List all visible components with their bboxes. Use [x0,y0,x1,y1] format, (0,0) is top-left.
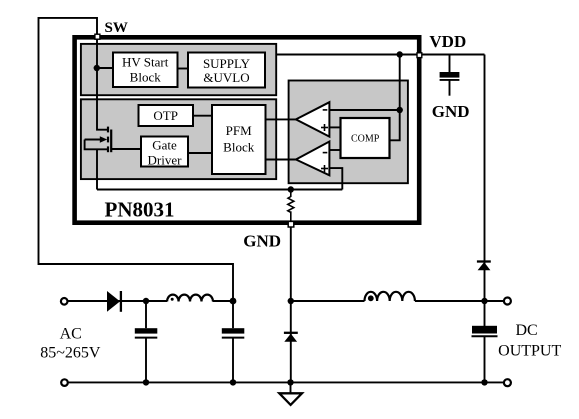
wire SW loop (external) [39,18,234,301]
wire PFM to comparator1 output [266,118,296,120]
inductor L2 with polarity dot [365,292,415,301]
pin SW terminal [95,34,100,39]
IC U1 PN8031 body [75,37,420,222]
inductor L1 with polarity dot [167,295,213,302]
HV/supply gray block [81,44,276,95]
HV Start Block box [113,53,178,88]
wire SW to HV Start Block [97,67,113,69]
capacitor C1 filter [135,328,158,333]
wire comparator2 non-inverting to feedback rail [329,168,342,189]
SUPPLY & UVLO box [188,53,265,88]
comparator gray block [289,81,408,184]
comparator A1 plus [321,127,328,129]
wire SW internal vertical to MOSFET drain [97,40,108,130]
wire OTP to PFM [193,115,212,117]
wire AC rail left [64,300,167,302]
svg-text:Gate: Gate [152,137,177,152]
svg-text:OUTPUT: OUTPUT [498,343,561,360]
wire bottom rail [65,381,504,383]
transistor Q1 body arrow [85,139,102,141]
svg-text:85~265V: 85~265V [40,344,101,361]
comparator A1 triangle [296,102,330,136]
capacitor C3 output [472,326,497,334]
transistor Q1 body-source loop [85,140,108,150]
wire HV Start Block to SUPPLY&UVLO [178,68,189,70]
wire VDD cap top lead [449,55,451,73]
wire filter cap C2 leads [232,301,234,328]
wire inductor1 to node [213,300,233,302]
wire VDD drop to comparator [399,55,401,111]
svg-text:SW: SW [105,20,128,36]
wire output vertical VDD to bottom rail [484,55,486,327]
svg-text:AC: AC [60,326,82,343]
wire filter cap C1 leads [145,301,147,328]
wire comparator2 inverting to COMP [329,149,340,151]
svg-text:&UVLO: &UVLO [203,70,249,85]
svg-text:Driver: Driver [148,152,183,167]
svg-text:GND: GND [432,102,470,121]
svg-text:HV Start: HV Start [122,55,169,70]
wire feedback rail [97,189,342,191]
capacitor C2 filter [222,328,245,333]
svg-text:PN8031: PN8031 [105,198,175,222]
Gate Driver box [141,137,188,167]
comparator A2 minus [323,152,328,154]
comparator A2 plus [321,168,328,170]
diode D3 output rectifier [477,260,491,262]
node junction dots [94,65,100,71]
AC input terminal + [61,298,68,305]
ground symbol [279,393,302,405]
svg-text:GND: GND [243,232,281,251]
wire MOSFET source down [96,149,98,189]
OTP box [139,105,194,126]
PFM Block box [212,105,266,174]
wire comparator1 inverting input [329,109,399,111]
wire COMP right link [390,110,400,140]
comparator A2 triangle [296,142,330,176]
wire Gate Driver to PFM [188,152,212,154]
transistor Q1 gate plate [110,130,112,153]
diode D2 freewheel [284,332,298,334]
wire gate lead to Gate Driver [111,148,141,150]
wire VDD rail from supply block to output diode [276,54,485,56]
svg-text:VDD: VDD [429,32,466,51]
svg-text:COMP: COMP [351,134,380,145]
wire rail inductor2 to DC+ [415,300,504,302]
svg-text:PFM: PFM [226,123,252,138]
resistor R1 current sense [288,197,294,213]
AC input terminal - [61,379,68,386]
DC output terminal + [504,298,511,305]
wire ground stub [290,382,292,392]
wire comparator1 non-inverting to COMP [329,126,340,128]
wire sense resistor bottom stub [290,211,292,221]
diode D1 input rectifier [107,291,120,312]
pin VDD terminal [417,53,422,58]
capacitor C4 VDD [440,72,460,78]
wire GND node to inductor2 [290,300,364,302]
wire GND pin down to bottom rail [290,228,292,383]
svg-text:DC: DC [515,322,537,339]
svg-text:OTP: OTP [153,108,178,123]
svg-text:Block: Block [130,70,162,85]
wire PFM to comparator2 output [266,159,296,161]
svg-text:SUPPLY: SUPPLY [203,56,251,71]
COMP box [341,118,390,158]
control gray block [81,99,276,179]
pin GND terminal [288,221,294,227]
wire VDD cap bottom lead [449,80,451,96]
DC output terminal - [504,379,511,386]
wire sense resistor top stub [290,190,292,198]
comparator A1 minus [323,109,328,111]
svg-text:Block: Block [223,140,255,155]
transistor Q1 power MOSFET channel ticks [107,127,109,133]
